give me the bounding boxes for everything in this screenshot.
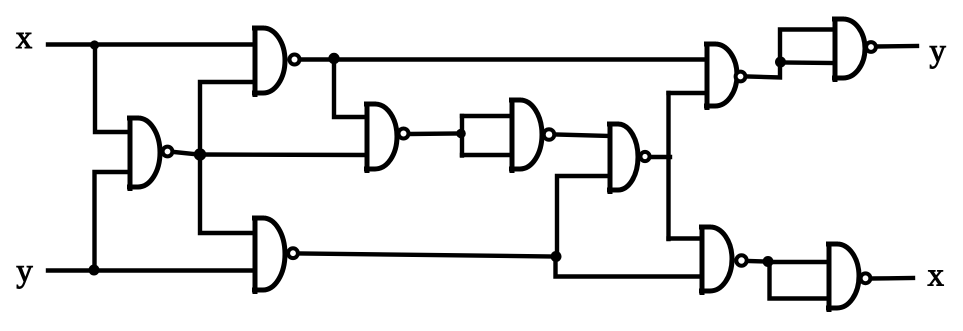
svg-text:x: x: [928, 258, 945, 294]
svg-text:y: y: [16, 253, 33, 289]
svg-text:x: x: [16, 20, 33, 56]
svg-text:y: y: [929, 33, 946, 69]
